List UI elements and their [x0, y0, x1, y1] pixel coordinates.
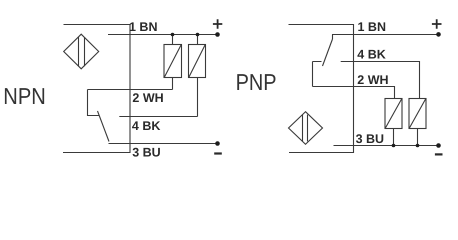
- svg-text:4 BK: 4 BK: [132, 119, 160, 133]
- svg-text:4 BK: 4 BK: [357, 48, 385, 62]
- svg-text:1 BN: 1 BN: [358, 20, 386, 34]
- svg-text:3 BU: 3 BU: [132, 146, 160, 160]
- svg-text:2 WH: 2 WH: [132, 91, 163, 105]
- svg-text:PNP: PNP: [236, 69, 277, 95]
- svg-text:3 BU: 3 BU: [356, 132, 384, 146]
- svg-text:1 BN: 1 BN: [129, 20, 157, 34]
- svg-text:NPN: NPN: [3, 83, 46, 109]
- svg-text:2 WH: 2 WH: [357, 73, 388, 87]
